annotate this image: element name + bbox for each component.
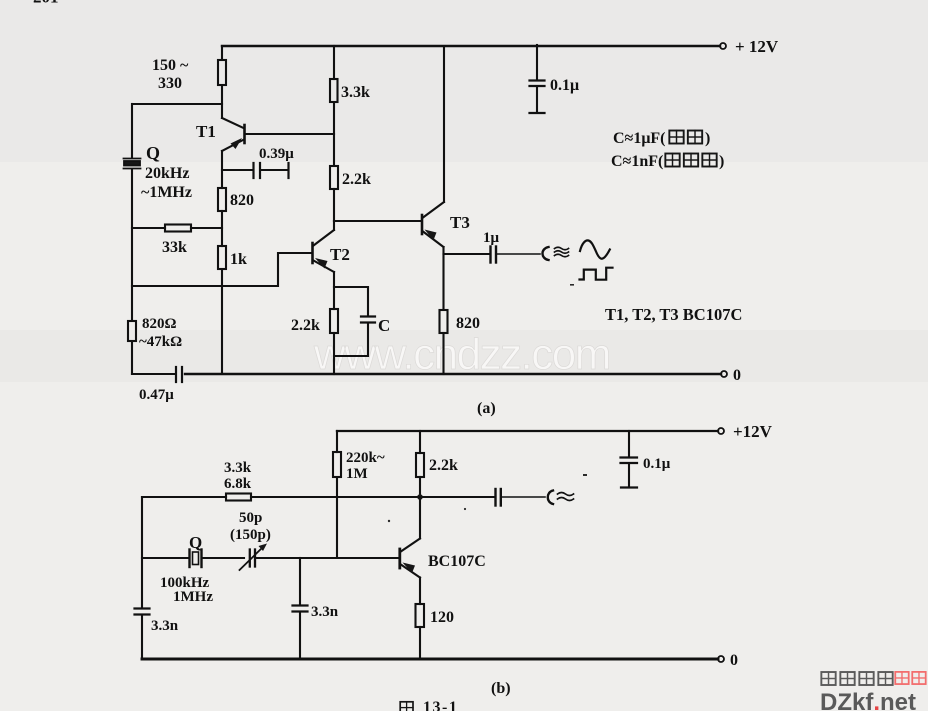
crystal Q (b) [188, 550, 190, 568]
svg-text:201: 201 [33, 0, 59, 7]
svg-text:1k: 1k [230, 251, 247, 268]
svg-text:www.cndzz.com: www.cndzz.com [313, 330, 610, 379]
resistor R 150~330 body [218, 60, 226, 85]
bottom rail (b) [142, 658, 718, 661]
svg-text:2.2k: 2.2k [429, 457, 458, 474]
svg-text:C≈1nF(: C≈1nF( [611, 153, 663, 170]
T1 emitter vertical [221, 151, 223, 188]
stray scan specks [388, 284, 587, 522]
resistor 33k wire [132, 227, 222, 229]
svg-text:+12V: +12V [733, 422, 773, 441]
bottom rail (a) with 0.47u capacitor [132, 373, 174, 375]
svg-text:0.1μ: 0.1μ [550, 77, 579, 94]
svg-text:0: 0 [733, 367, 741, 384]
transistor T3 base wire [334, 220, 421, 222]
transistor BC107C base bar [398, 549, 401, 568]
svg-text:820: 820 [456, 315, 480, 332]
variable capacitor 50p [249, 550, 251, 567]
capacitor C branch [334, 287, 368, 315]
capacitor 0.1u (b) [628, 431, 630, 457]
resistor 1k body [218, 246, 226, 269]
svg-text:T1: T1 [196, 122, 216, 141]
svg-text:1μ: 1μ [483, 230, 500, 246]
node dot [417, 494, 423, 500]
caption 13-1 [400, 702, 413, 711]
svg-text:~1MHz: ~1MHz [141, 184, 192, 201]
resistor 2.2k (b) [419, 431, 421, 453]
approx symbol (b) [558, 493, 574, 501]
sine wave icon [580, 240, 610, 258]
wire 2.2k to T3 base node [333, 189, 335, 221]
transistor T1 emitter [222, 140, 243, 151]
transistor T1 base bar [243, 125, 246, 143]
crystal Q (a) [124, 159, 141, 169]
left rail lower [131, 169, 133, 374]
resistor 820 body (T3) [440, 310, 448, 333]
resistor R 150~330 leads [221, 46, 223, 118]
svg-text:): ) [719, 153, 724, 170]
svg-text:120: 120 [430, 609, 454, 626]
note C=1uF square [613, 130, 710, 147]
0 terminal (a) [721, 371, 727, 377]
transistor T3 collector [423, 46, 444, 218]
wire 2.2k to bottom rail [333, 333, 335, 374]
T3 emitter vertical [442, 247, 444, 310]
resistor 820 body (T1) [218, 188, 226, 211]
svg-text:(b): (b) [491, 680, 511, 697]
svg-text:BC107C: BC107C [428, 553, 486, 570]
feedback wire with 3.3k/6.8k resistor [142, 496, 226, 498]
capacitor 0.1u (a) [536, 45, 538, 80]
transistor T2 emitter [314, 261, 335, 273]
svg-text:+ 12V: + 12V [735, 37, 779, 56]
resistor 2.2k body (upper) [330, 166, 338, 189]
svg-text:13-1: 13-1 [423, 699, 458, 711]
svg-text:C≈1μF(: C≈1μF( [613, 130, 666, 147]
svg-text:20kHz: 20kHz [145, 165, 189, 182]
svg-text:1M: 1M [346, 466, 368, 482]
wire 820 to 1k [221, 211, 223, 246]
svg-text:(a): (a) [477, 400, 496, 417]
svg-text:): ) [705, 130, 710, 147]
svg-text:0.1μ: 0.1μ [643, 456, 671, 472]
note C=1nF sine [611, 153, 724, 170]
wire 820 to bottom rail [442, 333, 444, 374]
transistor T3 emitter [423, 232, 444, 248]
resistor 2.2k body (T2 emitter) [330, 309, 338, 333]
output capacitor (b) [494, 489, 496, 506]
svg-text:~47kΩ: ~47kΩ [139, 334, 182, 350]
wire 1k down to bottom rail [221, 269, 223, 374]
svg-text:3.3k: 3.3k [224, 460, 252, 476]
square wave icon [580, 268, 613, 280]
transistor T3 base bar [421, 215, 424, 234]
wire base net T2 [132, 253, 311, 286]
svg-text:T3: T3 [450, 213, 470, 232]
emitter vertical + resistor 120 [419, 578, 421, 605]
transistor T1 base wire [246, 133, 335, 135]
transistor BC107C collector [401, 500, 420, 552]
svg-text:Q: Q [146, 143, 160, 163]
capacitor 3.3n middle [299, 558, 301, 605]
left vertical (b) [141, 497, 143, 607]
svg-text:2.2k: 2.2k [291, 317, 320, 334]
output wire and capacitor 1u [444, 253, 490, 255]
left rail upper [131, 104, 133, 157]
svg-text:Q: Q [189, 533, 202, 552]
svg-text:3.3k: 3.3k [341, 84, 370, 101]
output connector (b) [548, 491, 553, 505]
resistor 220k~1M [336, 431, 338, 452]
svg-text:3.3n: 3.3n [151, 618, 179, 634]
svg-text:(150p): (150p) [230, 527, 271, 543]
capacitor 3.3n left [135, 607, 150, 609]
transistor T1 collector [222, 118, 244, 128]
svg-text:0: 0 [730, 652, 738, 669]
svg-text:1MHz: 1MHz [173, 589, 213, 605]
resistor 33k body [165, 225, 191, 232]
(b) +12V rail [337, 430, 718, 432]
svg-text:50p: 50p [239, 510, 262, 526]
svg-text:0.47μ: 0.47μ [139, 387, 174, 403]
svg-text:C: C [378, 316, 390, 335]
svg-text:6.8k: 6.8k [224, 476, 252, 492]
wire node to left rail [133, 103, 222, 105]
wire 3.3k to 2.2k [333, 102, 335, 166]
(a) +12V terminal [720, 43, 726, 49]
footer logo chinese [821, 672, 925, 685]
svg-text:820: 820 [230, 192, 254, 209]
(a) +12V rail wire [222, 45, 720, 47]
crystal wire (b) [142, 557, 188, 559]
svg-text:33k: 33k [162, 239, 187, 256]
transistor BC107C emitter [401, 565, 420, 578]
T2 emitter vertical [333, 272, 335, 309]
svg-text:2.2k: 2.2k [342, 171, 371, 188]
base wire to transistor [256, 557, 399, 559]
resistor 3.3k branch [333, 46, 335, 79]
resistor 820ohm~47k body [128, 321, 136, 341]
svg-text:T1, T2, T3 BC107C: T1, T2, T3 BC107C [605, 305, 742, 324]
svg-text:330: 330 [158, 75, 182, 92]
svg-text:150 ~: 150 ~ [152, 57, 189, 74]
svg-text:0.39μ: 0.39μ [259, 146, 294, 162]
svg-text:T2: T2 [330, 245, 350, 264]
approx symbol (a) [555, 247, 569, 257]
svg-text:820Ω: 820Ω [142, 316, 177, 332]
capacitor 0.39u wire and plates [222, 169, 252, 171]
transistor T2 collector [314, 221, 335, 246]
transistor T2 base bar [311, 243, 314, 263]
output connector (a) [543, 247, 549, 260]
svg-text:220k~: 220k~ [346, 450, 385, 466]
svg-text:3.3n: 3.3n [311, 604, 339, 620]
svg-text:DZkf.net: DZkf.net [820, 689, 916, 711]
